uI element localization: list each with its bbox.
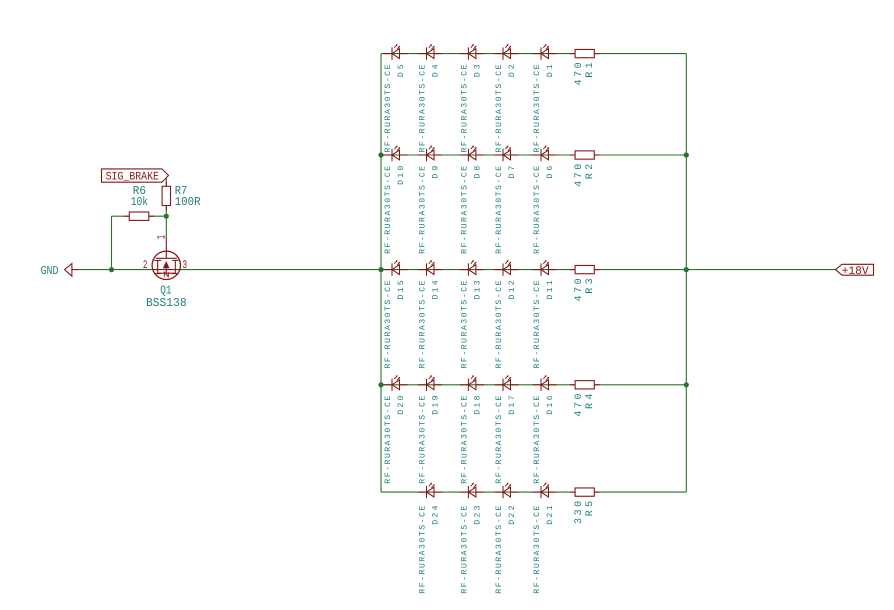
resistor R3 470 — [570, 265, 600, 273]
svg-text:SIG_BRAKE: SIG_BRAKE — [106, 170, 159, 183]
wire: LED string row 1 — [381, 53, 686, 55]
diode D5 (RF-RURA30TS-CE LED) — [384, 44, 408, 60]
diode D10 (RF-RURA30TS-CE LED) — [384, 146, 408, 162]
svg-text:RF-RURA30TS-CE: RF-RURA30TS-CE — [384, 396, 393, 484]
wire: right vertical bus (cathode return) — [685, 54, 687, 493]
junction GND rail / R6 leg — [109, 267, 114, 272]
svg-text:D16: D16 — [546, 395, 555, 414]
diode D1 (RF-RURA30TS-CE LED) — [533, 44, 557, 60]
wire: LED string row 2 — [381, 154, 686, 156]
svg-text:D18: D18 — [473, 395, 482, 414]
svg-text:RF-RURA30TS-CE: RF-RURA30TS-CE — [533, 506, 542, 594]
svg-text:D15: D15 — [397, 280, 406, 299]
svg-text:RF-RURA30TS-CE: RF-RURA30TS-CE — [419, 64, 428, 152]
wire: R6 right to gate node — [149, 215, 167, 217]
wire: LED string row 5 — [381, 491, 686, 493]
svg-text:100R: 100R — [175, 195, 201, 209]
svg-text:D10: D10 — [397, 166, 406, 185]
diode D3 (RF-RURA30TS-CE LED) — [460, 44, 484, 60]
svg-text:RF-RURA30TS-CE: RF-RURA30TS-CE — [533, 396, 542, 484]
svg-text:D13: D13 — [473, 280, 482, 299]
svg-text:RF-RURA30TS-CE: RF-RURA30TS-CE — [460, 166, 469, 254]
resistor R1 470 — [570, 49, 600, 57]
svg-text:3: 3 — [183, 259, 188, 272]
svg-text:RF-RURA30TS-CE: RF-RURA30TS-CE — [460, 506, 469, 594]
svg-text:RF-RURA30TS-CE: RF-RURA30TS-CE — [460, 280, 469, 368]
power label +18V — [836, 264, 874, 278]
svg-text:RF-RURA30TS-CE: RF-RURA30TS-CE — [419, 166, 428, 254]
svg-text:RF-RURA30TS-CE: RF-RURA30TS-CE — [533, 166, 542, 254]
svg-text:10k: 10k — [131, 195, 148, 209]
svg-text:1: 1 — [155, 235, 168, 240]
svg-text:D24: D24 — [431, 505, 440, 524]
diode D20 (RF-RURA30TS-CE LED) — [384, 375, 408, 391]
svg-text:D11: D11 — [546, 280, 555, 299]
wire: left vertical bus (anode column feed) — [380, 54, 382, 493]
diode D2 (RF-RURA30TS-CE LED) — [495, 44, 519, 60]
svg-text:RF-RURA30TS-CE: RF-RURA30TS-CE — [533, 280, 542, 368]
resistor R5 330 — [570, 488, 600, 496]
wire: R6 left horizontal — [112, 215, 130, 217]
diode D17 (RF-RURA30TS-CE LED) — [495, 375, 519, 391]
svg-text:RF-RURA30TS-CE: RF-RURA30TS-CE — [533, 64, 542, 152]
resistor R6 10k — [124, 212, 154, 220]
svg-text:RF-RURA30TS-CE: RF-RURA30TS-CE — [419, 506, 428, 594]
svg-text:D17: D17 — [508, 395, 517, 414]
diode D6 (RF-RURA30TS-CE LED) — [533, 146, 557, 162]
wire: LED string row 4 — [381, 384, 686, 386]
diode D16 (RF-RURA30TS-CE LED) — [533, 375, 557, 391]
junction left bus row 4 — [378, 382, 383, 387]
wire: right bus to +18V — [686, 269, 835, 271]
wire: SIG_BRAKE label to R7 top — [165, 176, 167, 187]
svg-text:D22: D22 — [508, 505, 517, 524]
svg-text:D23: D23 — [473, 505, 482, 524]
wire: R6 left leg down to GND rail — [111, 216, 113, 269]
svg-text:BSS138: BSS138 — [146, 296, 187, 310]
wire: R7 bottom to Q1 gate — [165, 206, 167, 238]
transistor Q1 BSS138 N-MOSFET — [152, 237, 180, 280]
diode D24 (RF-RURA30TS-CE LED) — [418, 483, 442, 499]
svg-text:470: 470 — [574, 278, 585, 301]
diode D11 (RF-RURA30TS-CE LED) — [533, 260, 557, 276]
diode D14 (RF-RURA30TS-CE LED) — [418, 260, 442, 276]
diode D21 (RF-RURA30TS-CE LED) — [533, 483, 557, 499]
resistor R4 470 — [570, 381, 600, 389]
svg-text:+18V: +18V — [842, 265, 869, 278]
svg-text:RF-RURA30TS-CE: RF-RURA30TS-CE — [495, 166, 504, 254]
svg-text:GND: GND — [41, 264, 59, 278]
diode D23 (RF-RURA30TS-CE LED) — [460, 483, 484, 499]
svg-text:330: 330 — [574, 501, 585, 524]
svg-text:470: 470 — [574, 394, 585, 417]
svg-text:2: 2 — [143, 259, 148, 272]
ground symbol GND — [65, 264, 79, 277]
junction left bus row 3 — [378, 267, 383, 272]
wire: GND rail to Q1 source — [78, 269, 152, 271]
svg-text:RF-RURA30TS-CE: RF-RURA30TS-CE — [460, 64, 469, 152]
junction right bus row 3 — [684, 267, 689, 272]
resistor R7 100R — [162, 181, 170, 210]
svg-text:470: 470 — [574, 164, 585, 187]
svg-text:RF-RURA30TS-CE: RF-RURA30TS-CE — [495, 280, 504, 368]
diode D12 (RF-RURA30TS-CE LED) — [495, 260, 519, 276]
junction left bus row 2 — [378, 152, 383, 157]
diode D19 (RF-RURA30TS-CE LED) — [418, 375, 442, 391]
net label SIG_BRAKE — [102, 169, 169, 184]
svg-text:D14: D14 — [431, 280, 440, 299]
svg-text:RF-RURA30TS-CE: RF-RURA30TS-CE — [419, 396, 428, 484]
svg-text:RF-RURA30TS-CE: RF-RURA30TS-CE — [419, 280, 428, 368]
svg-text:D21: D21 — [546, 505, 555, 524]
wire: Q1 drain to LED string row 3 — [181, 269, 687, 271]
diode D18 (RF-RURA30TS-CE LED) — [460, 375, 484, 391]
svg-text:RF-RURA30TS-CE: RF-RURA30TS-CE — [495, 64, 504, 152]
svg-text:RF-RURA30TS-CE: RF-RURA30TS-CE — [384, 166, 393, 254]
junction right bus row 4 — [684, 382, 689, 387]
junction gate node R6/R7 — [164, 214, 169, 219]
diode D15 (RF-RURA30TS-CE LED) — [384, 260, 408, 276]
svg-text:D12: D12 — [508, 280, 517, 299]
diode D4 (RF-RURA30TS-CE LED) — [418, 44, 442, 60]
svg-text:RF-RURA30TS-CE: RF-RURA30TS-CE — [460, 396, 469, 484]
svg-text:RF-RURA30TS-CE: RF-RURA30TS-CE — [495, 506, 504, 594]
svg-text:470: 470 — [574, 62, 585, 85]
svg-text:D19: D19 — [431, 395, 440, 414]
svg-text:RF-RURA30TS-CE: RF-RURA30TS-CE — [384, 64, 393, 152]
diode D22 (RF-RURA30TS-CE LED) — [495, 483, 519, 499]
diode D9 (RF-RURA30TS-CE LED) — [418, 146, 442, 162]
diode D13 (RF-RURA30TS-CE LED) — [460, 260, 484, 276]
svg-text:D20: D20 — [397, 395, 406, 414]
resistor R2 470 — [570, 151, 600, 159]
junction right bus row 2 — [684, 152, 689, 157]
diode D8 (RF-RURA30TS-CE LED) — [460, 146, 484, 162]
diode D7 (RF-RURA30TS-CE LED) — [495, 146, 519, 162]
svg-text:RF-RURA30TS-CE: RF-RURA30TS-CE — [384, 280, 393, 368]
svg-text:RF-RURA30TS-CE: RF-RURA30TS-CE — [495, 396, 504, 484]
